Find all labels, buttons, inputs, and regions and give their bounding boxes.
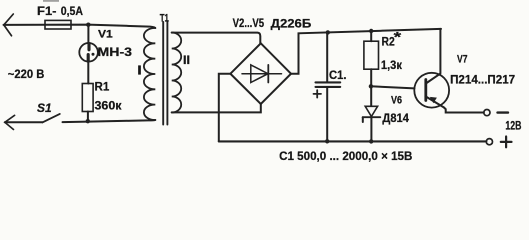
svg-text:Д226Б: Д226Б: [271, 16, 312, 30]
svg-text:12В: 12В: [505, 119, 521, 133]
svg-text:V1: V1: [98, 29, 113, 41]
svg-text:V2...V5: V2...V5: [233, 16, 265, 30]
svg-text:1,3к: 1,3к: [381, 58, 403, 72]
svg-text:C1.: C1.: [329, 68, 347, 82]
svg-text:V7: V7: [457, 53, 468, 65]
svg-text:Д814: Д814: [382, 111, 409, 125]
svg-text:II: II: [183, 53, 190, 67]
svg-text:T1: T1: [160, 13, 169, 25]
svg-text:C1 500,0 ... 2000,0 × 15В: C1 500,0 ... 2000,0 × 15В: [279, 149, 413, 163]
svg-text:S1: S1: [37, 101, 52, 115]
svg-text:МН-3: МН-3: [98, 45, 133, 59]
svg-text:V6: V6: [391, 95, 402, 107]
svg-text:0,5A: 0,5A: [61, 4, 83, 18]
svg-text:~220 В: ~220 В: [8, 67, 45, 81]
svg-text:F1-: F1-: [37, 4, 57, 18]
svg-text:П214...П217: П214...П217: [450, 73, 515, 87]
svg-text:*: *: [394, 29, 402, 45]
svg-text:360к: 360к: [95, 99, 123, 113]
svg-text:R1: R1: [95, 80, 110, 94]
svg-text:I: I: [137, 63, 142, 78]
